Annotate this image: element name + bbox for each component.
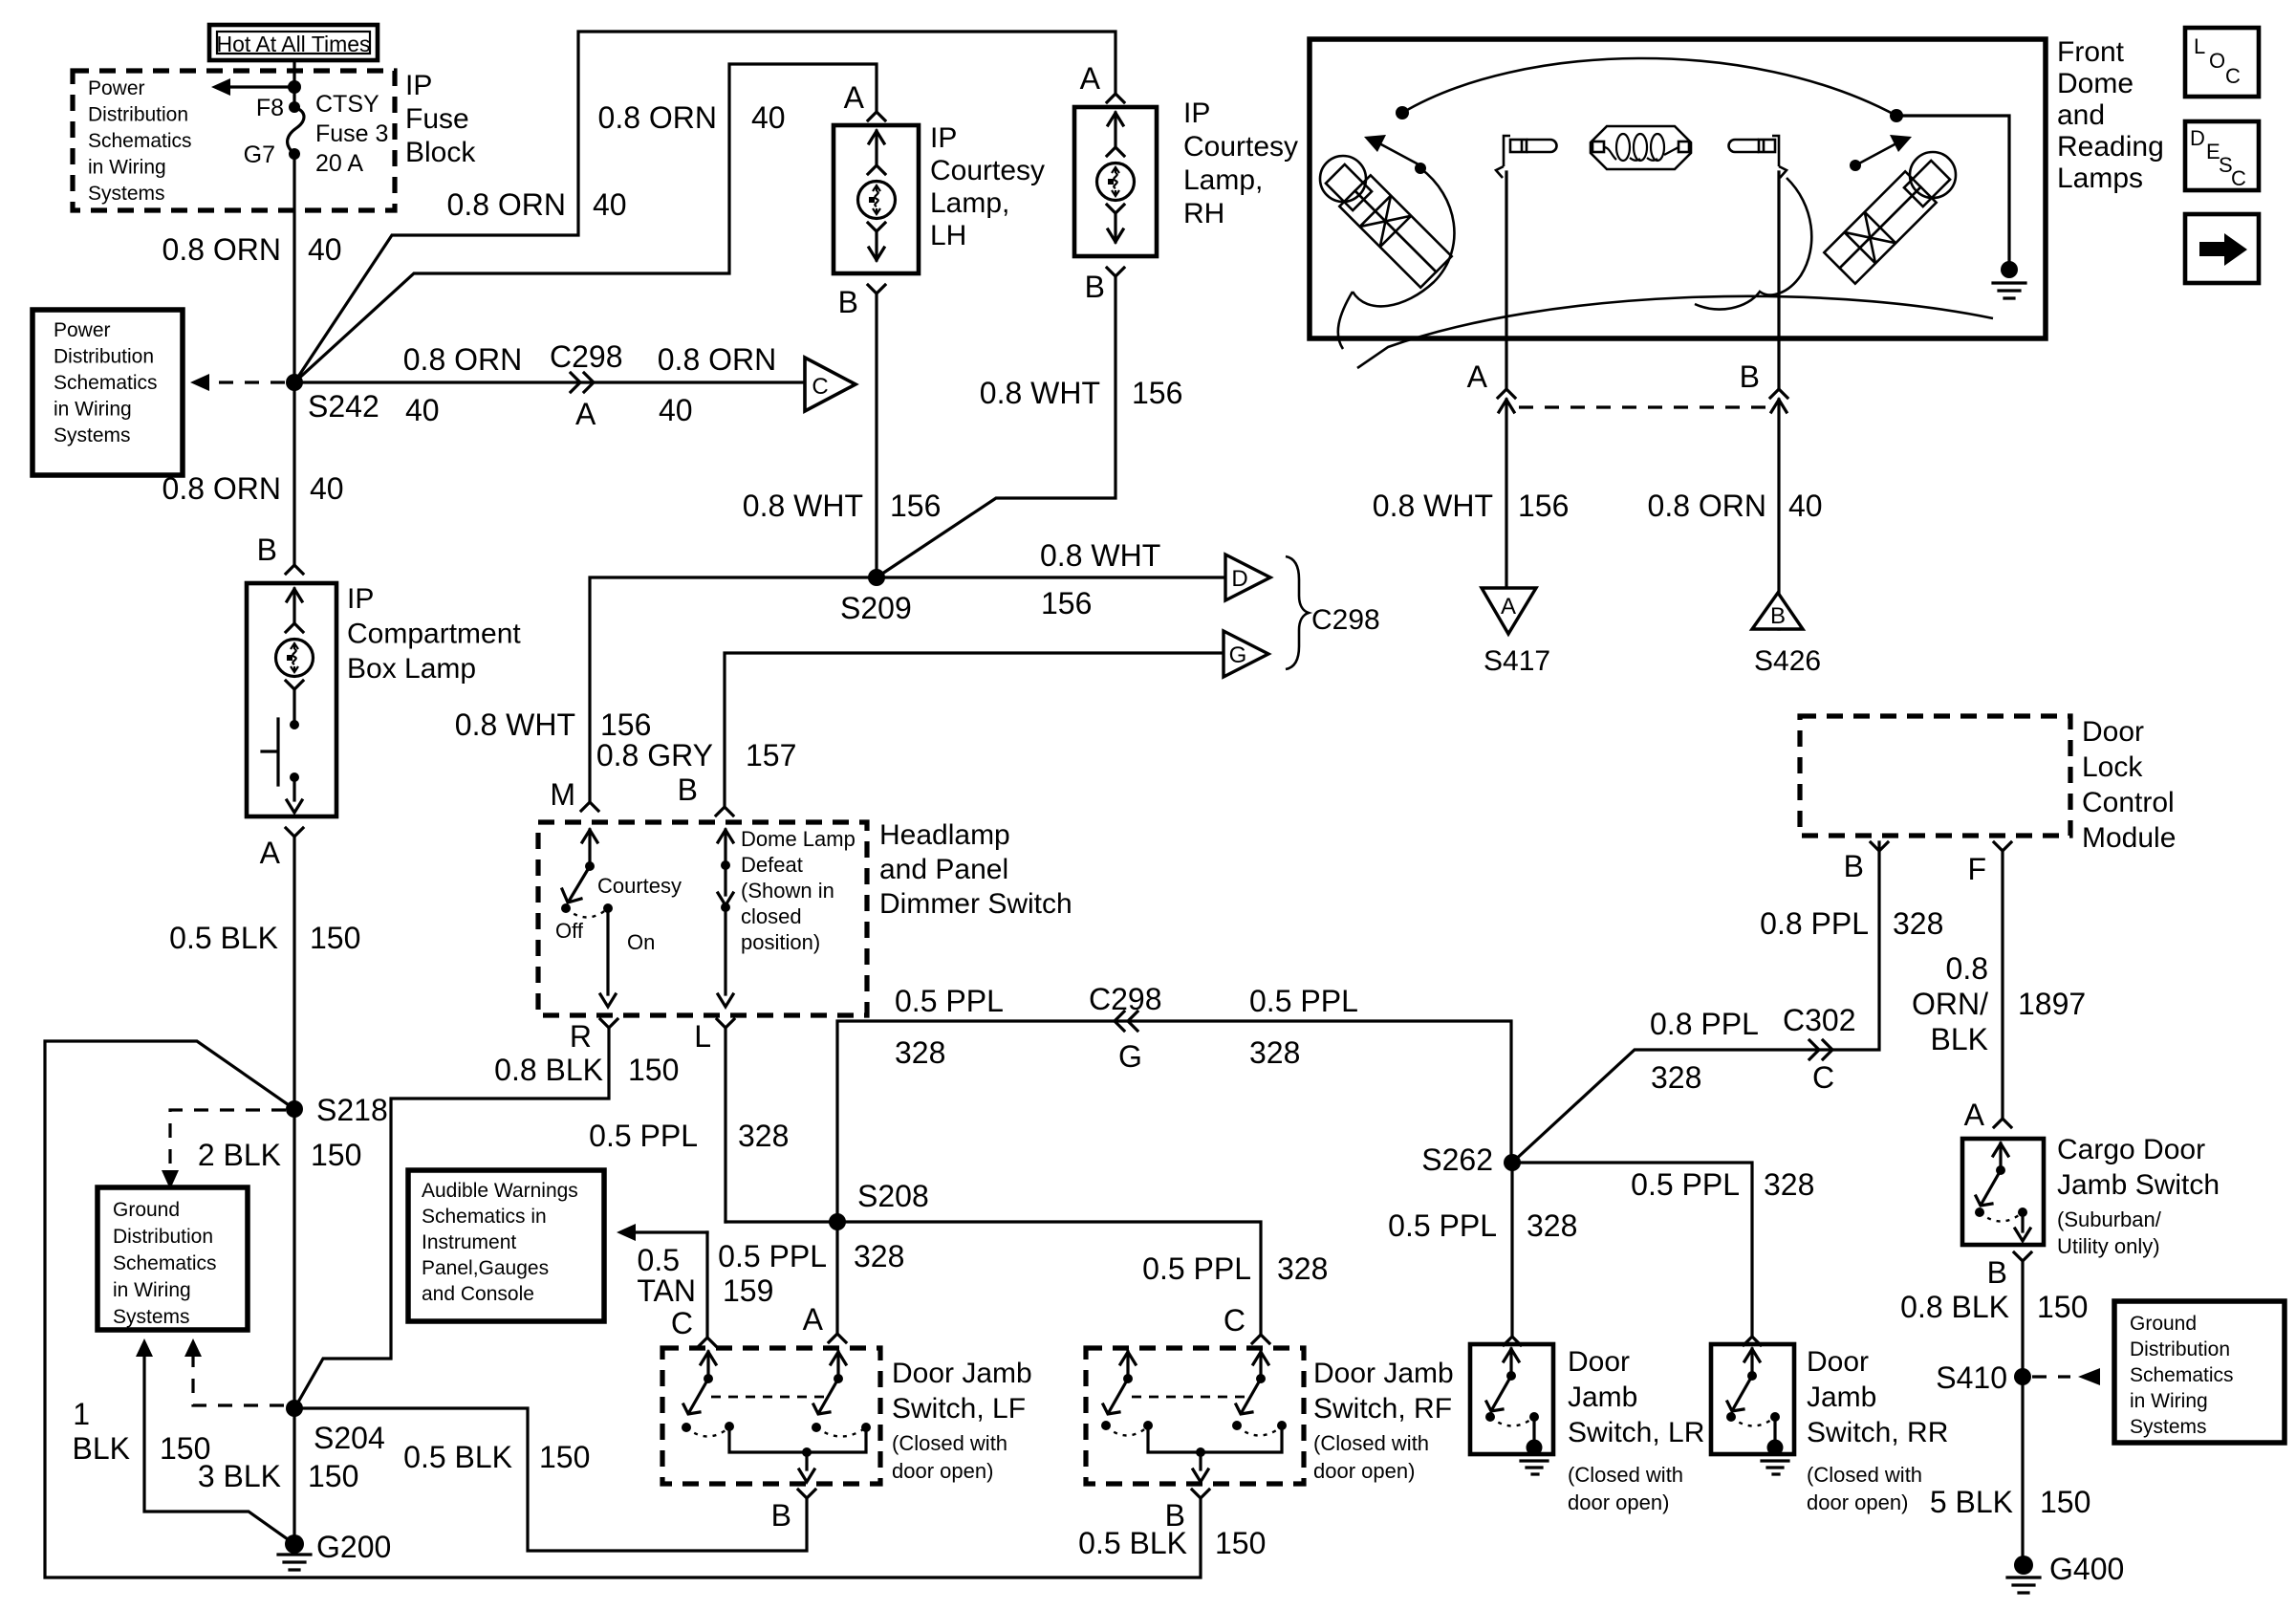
svg-text:Lamp,: Lamp, bbox=[1183, 164, 1263, 196]
svg-text:Jamb: Jamb bbox=[1568, 1382, 1637, 1413]
svg-text:B: B bbox=[1085, 270, 1105, 304]
svg-text:328: 328 bbox=[1277, 1251, 1328, 1286]
label 0.8 GRY 157 (B wire) bbox=[596, 738, 797, 772]
svg-text:and Console: and Console bbox=[422, 1283, 534, 1305]
svg-text:A: A bbox=[575, 397, 596, 431]
svg-text:S208: S208 bbox=[857, 1179, 929, 1213]
Ground Distribution Schematics box (right) bbox=[2114, 1301, 2285, 1443]
wire: fuse G7 down to S242 bbox=[292, 154, 295, 382]
dashed wire S242 to Power Distribution box with arrow bbox=[190, 374, 285, 391]
node S208 bbox=[829, 1179, 929, 1230]
wire 0.5 TAN to audible warnings bbox=[617, 1224, 707, 1338]
splice triangle S417 bbox=[1482, 588, 1550, 677]
svg-text:0.8 ORN: 0.8 ORN bbox=[403, 342, 522, 377]
wire compartment lamp A to S218/S204 bbox=[292, 837, 295, 1408]
svg-text:156: 156 bbox=[600, 707, 651, 742]
svg-text:Utility only): Utility only) bbox=[2057, 1234, 2160, 1258]
pin B of LH lamp bbox=[838, 285, 885, 319]
wire L pin down to S208 bbox=[724, 1028, 726, 1222]
label 0.5 BLK 150 (lamp ground) bbox=[169, 921, 360, 955]
wire S262 to C302 to Door Lock Module B bbox=[1512, 842, 1879, 1163]
svg-text:0.8: 0.8 bbox=[1946, 951, 1988, 986]
svg-text:Reading: Reading bbox=[2057, 131, 2164, 163]
Door Jamb Switch LF label bbox=[892, 1358, 1032, 1483]
RF internal dashed link bbox=[1132, 1396, 1245, 1399]
pin B of RF switch bbox=[1165, 1490, 1209, 1533]
node S218 bbox=[286, 1093, 388, 1127]
wire S242 down to compartment lamp B bbox=[292, 382, 295, 565]
Power Distribution Schematics reference text (fuse block) bbox=[88, 77, 192, 205]
switch position labels bbox=[555, 874, 682, 954]
svg-text:G400: G400 bbox=[2049, 1552, 2124, 1586]
svg-text:328: 328 bbox=[738, 1119, 789, 1153]
svg-text:in Wiring: in Wiring bbox=[2130, 1390, 2208, 1412]
svg-text:Systems: Systems bbox=[2130, 1416, 2207, 1438]
label 0.5 PPL 328 (L wire) bbox=[589, 1119, 789, 1153]
svg-text:ORN/: ORN/ bbox=[1912, 987, 1988, 1021]
svg-text:S218: S218 bbox=[316, 1093, 388, 1127]
svg-text:0.5 BLK: 0.5 BLK bbox=[169, 921, 278, 955]
svg-text:Dome Lamp: Dome Lamp bbox=[741, 827, 856, 851]
svg-text:Door: Door bbox=[1807, 1346, 1869, 1378]
lens bottom arc bbox=[1357, 296, 1993, 368]
label 0.5 PPL 328 (left of C298) bbox=[895, 984, 1004, 1070]
svg-text:B: B bbox=[771, 1498, 791, 1533]
svg-text:150: 150 bbox=[628, 1053, 679, 1087]
svg-text:40: 40 bbox=[308, 232, 342, 267]
dashed wire ground box to S204 bbox=[184, 1338, 285, 1405]
svg-text:0.5 PPL: 0.5 PPL bbox=[1388, 1208, 1497, 1243]
LOC legend box bbox=[2185, 28, 2259, 97]
svg-text:Schematics: Schematics bbox=[54, 372, 158, 394]
svg-text:B: B bbox=[678, 772, 698, 807]
svg-text:Defeat: Defeat bbox=[741, 853, 803, 877]
node S209 bbox=[840, 569, 912, 625]
pin A of LF switch bbox=[803, 1302, 846, 1342]
svg-text:A: A bbox=[1964, 1098, 1985, 1132]
label 1 BLK 150 bbox=[73, 1397, 211, 1466]
svg-text:Control: Control bbox=[2082, 787, 2175, 818]
wire cargo B to G400 bbox=[2021, 1261, 2024, 1565]
svg-text:Ground: Ground bbox=[2130, 1313, 2197, 1335]
svg-text:C298: C298 bbox=[550, 339, 623, 374]
svg-text:S417: S417 bbox=[1484, 645, 1550, 677]
svg-text:150: 150 bbox=[310, 921, 360, 955]
pin B of cargo switch bbox=[1987, 1252, 2031, 1290]
svg-text:Switch, LR: Switch, LR bbox=[1568, 1417, 1704, 1448]
svg-text:150: 150 bbox=[311, 1138, 361, 1172]
label 0.8 WHT 156 (dome A) bbox=[1373, 489, 1570, 523]
svg-text:Schematics: Schematics bbox=[2130, 1364, 2234, 1386]
svg-text:20 A: 20 A bbox=[315, 150, 363, 177]
svg-text:LH: LH bbox=[930, 220, 966, 251]
connector C298 (inline >>) bbox=[550, 339, 623, 431]
pin of LR switch bbox=[1504, 1337, 1521, 1345]
svg-text:A: A bbox=[1467, 359, 1488, 394]
svg-text:Panel,Gauges: Panel,Gauges bbox=[422, 1257, 549, 1279]
svg-text:L: L bbox=[2194, 34, 2205, 58]
svg-text:C302: C302 bbox=[1783, 1003, 1856, 1037]
svg-text:B: B bbox=[838, 285, 858, 319]
node S204 bbox=[286, 1400, 385, 1455]
label 0.8 WHT 156 (S209-D) bbox=[1040, 538, 1160, 620]
off-page triangle D bbox=[1225, 555, 1270, 600]
svg-text:Dimmer Switch: Dimmer Switch bbox=[879, 888, 1072, 920]
svg-text:in Wiring: in Wiring bbox=[88, 157, 166, 179]
left bulb harness wire bbox=[1338, 163, 1455, 349]
Front Dome and Reading Lamps label bbox=[2057, 36, 2164, 194]
node at fuse feed bbox=[288, 80, 301, 94]
svg-text:40: 40 bbox=[310, 471, 344, 506]
connector C298 (inline <<) bbox=[1089, 982, 1162, 1074]
svg-text:IP: IP bbox=[1183, 98, 1210, 129]
label 0.5 TAN 159 bbox=[637, 1243, 773, 1308]
svg-text:1897: 1897 bbox=[2018, 987, 2086, 1021]
svg-text:Door: Door bbox=[1568, 1346, 1630, 1378]
splice triangle S426 bbox=[1752, 593, 1821, 677]
svg-text:40: 40 bbox=[751, 100, 786, 135]
label 0.5 PPL 328 (RF C wire) bbox=[1142, 1251, 1328, 1286]
label 0.8 BLK 150 (cargo B) bbox=[1900, 1290, 2088, 1324]
Power Distribution Schematics box (left) bbox=[32, 310, 183, 475]
svg-text:0.5 PPL: 0.5 PPL bbox=[1631, 1167, 1740, 1202]
wire S208 horizontal to RF door jamb C bbox=[726, 1222, 1261, 1335]
label 0.5 PPL 328 (LR wire) bbox=[1388, 1208, 1577, 1243]
svg-text:Off: Off bbox=[555, 919, 584, 943]
LF switch left pole bbox=[682, 1352, 729, 1437]
dashed wire S410 to ground distribution box bbox=[2032, 1368, 2100, 1385]
svg-text:Block: Block bbox=[405, 137, 476, 168]
svg-text:Systems: Systems bbox=[113, 1306, 190, 1328]
svg-text:5 BLK: 5 BLK bbox=[1930, 1485, 2013, 1519]
label 0.8 ORN 40 (S242-C298) bbox=[403, 342, 522, 427]
svg-text:Switch, RF: Switch, RF bbox=[1313, 1393, 1452, 1425]
wire S262 right to RR switch bbox=[1512, 1163, 1752, 1337]
left reading bulb bbox=[1320, 156, 1452, 288]
svg-text:Headlamp: Headlamp bbox=[879, 819, 1010, 851]
svg-text:door open): door open) bbox=[892, 1459, 993, 1483]
Door Jamb Switch RF box bbox=[1086, 1348, 1304, 1484]
svg-text:IP: IP bbox=[347, 583, 374, 615]
svg-text:G200: G200 bbox=[316, 1530, 391, 1564]
svg-text:0.5 BLK: 0.5 BLK bbox=[1078, 1526, 1187, 1560]
label 0.5 BLK 150 (S204-LF) bbox=[403, 1440, 590, 1474]
Audible Warnings reference box bbox=[408, 1170, 604, 1321]
label 0.8 WHT 156 (LH B wire) bbox=[743, 489, 942, 523]
pin B of door lock module bbox=[1844, 842, 1888, 883]
svg-text:0.5 PPL: 0.5 PPL bbox=[1249, 984, 1358, 1018]
pin R of dimmer switch bbox=[570, 1019, 617, 1054]
svg-text:156: 156 bbox=[890, 489, 941, 523]
IP Courtesy Lamp RH bbox=[1074, 98, 1298, 256]
wire S204 to LF door jamb B bbox=[294, 1408, 807, 1551]
svg-text:Compartment: Compartment bbox=[347, 619, 521, 650]
svg-text:D: D bbox=[2190, 126, 2205, 150]
svg-text:(Shown in: (Shown in bbox=[741, 879, 834, 903]
label 0.8 ORN 40 (lower run) bbox=[447, 187, 627, 222]
svg-text:(Closed with: (Closed with bbox=[1807, 1463, 1922, 1487]
LF internal dashed link bbox=[711, 1396, 824, 1399]
label 0.5 PPL 328 (RR wire) bbox=[1631, 1167, 1814, 1202]
svg-text:C: C bbox=[812, 374, 828, 400]
svg-text:0.8 WHT: 0.8 WHT bbox=[980, 376, 1100, 410]
pin A of RH lamp bbox=[1080, 61, 1124, 102]
Cargo Door Jamb Switch bbox=[1962, 1139, 2044, 1245]
label 0.8 PPL 328 (S262-C302) bbox=[1650, 1007, 1759, 1095]
svg-text:door open): door open) bbox=[1313, 1459, 1415, 1483]
svg-text:0.8 PPL: 0.8 PPL bbox=[1760, 906, 1869, 941]
svg-text:BLK: BLK bbox=[1931, 1022, 1988, 1056]
Door Jamb Switch LR bbox=[1470, 1344, 1553, 1474]
wire dome B to S426 bbox=[1777, 400, 1780, 629]
svg-text:157: 157 bbox=[746, 738, 796, 772]
svg-text:Jamb: Jamb bbox=[1807, 1382, 1876, 1413]
svg-text:position): position) bbox=[741, 930, 820, 954]
svg-text:(Closed with: (Closed with bbox=[1568, 1463, 1683, 1487]
svg-text:Schematics: Schematics bbox=[88, 130, 192, 152]
svg-text:0.8 WHT: 0.8 WHT bbox=[1373, 489, 1493, 523]
svg-text:156: 156 bbox=[1132, 376, 1182, 410]
pin L of dimmer switch bbox=[694, 1019, 734, 1054]
pin A of dome lamp assembly bbox=[1467, 359, 1515, 412]
pin B of compartment lamp bbox=[257, 533, 303, 574]
svg-text:40: 40 bbox=[405, 393, 440, 427]
label 0.8 BLK 150 (R wire) bbox=[494, 1053, 679, 1087]
label 0.8 ORN 40 (fuse output) bbox=[162, 232, 342, 267]
svg-text:0.8 WHT: 0.8 WHT bbox=[455, 707, 575, 742]
wire R pin to S204 (0.8 BLK) bbox=[296, 1028, 609, 1405]
svg-text:and: and bbox=[2057, 99, 2105, 131]
wire S208 up through C298 to S262 bbox=[837, 1021, 1511, 1222]
svg-text:Lock: Lock bbox=[2082, 751, 2143, 783]
svg-text:S262: S262 bbox=[1421, 1142, 1493, 1177]
svg-text:F8: F8 bbox=[256, 95, 284, 121]
svg-text:Dome: Dome bbox=[2057, 68, 2134, 99]
label 0.8 PPL 328 (module B wire) bbox=[1760, 906, 1943, 941]
svg-text:0.8 GRY: 0.8 GRY bbox=[596, 738, 713, 772]
Headlamp and Panel Dimmer Switch label bbox=[879, 819, 1072, 920]
svg-text:0.8 WHT: 0.8 WHT bbox=[1040, 538, 1160, 573]
ground G400 bbox=[2007, 1552, 2124, 1593]
svg-text:S204: S204 bbox=[314, 1421, 385, 1455]
svg-text:A: A bbox=[844, 80, 865, 115]
node S262 bbox=[1421, 1142, 1521, 1177]
Door Jamb Switch RF label bbox=[1313, 1358, 1454, 1483]
left bulb arrow bbox=[1364, 135, 1419, 164]
Front Dome and Reading Lamps box bbox=[1310, 39, 2046, 338]
brace and C298 label for D/G bbox=[1286, 556, 1380, 669]
wire S208 down to LF door jamb A bbox=[835, 1222, 838, 1334]
DESC legend box bbox=[2185, 121, 2259, 190]
svg-text:S410: S410 bbox=[1936, 1360, 2007, 1395]
svg-text:Front: Front bbox=[2057, 36, 2125, 68]
LF output bus bbox=[725, 1422, 871, 1482]
svg-text:328: 328 bbox=[854, 1239, 904, 1273]
svg-text:0.5: 0.5 bbox=[638, 1243, 680, 1277]
svg-text:(Closed with: (Closed with bbox=[1313, 1431, 1429, 1455]
svg-text:150: 150 bbox=[308, 1459, 358, 1493]
Hot At All Times box bbox=[209, 25, 378, 60]
svg-text:G7: G7 bbox=[244, 141, 275, 168]
pin of RR switch bbox=[1744, 1337, 1761, 1345]
pin M of dimmer switch bbox=[550, 777, 598, 812]
label 0.8 ORN/BLK 1897 bbox=[1912, 951, 2086, 1056]
svg-text:328: 328 bbox=[1764, 1167, 1814, 1202]
wire RH lamp B to S209 bbox=[877, 276, 1116, 577]
label 0.8 ORN 40 (C298-C) bbox=[658, 342, 776, 427]
fuse CTSY Fuse 3 20A bbox=[244, 91, 389, 177]
svg-text:Courtesy: Courtesy bbox=[930, 155, 1045, 186]
svg-text:Door Jamb: Door Jamb bbox=[892, 1358, 1032, 1389]
svg-text:Fuse: Fuse bbox=[405, 103, 469, 135]
pin B of LF switch bbox=[771, 1490, 815, 1533]
svg-text:150: 150 bbox=[1215, 1526, 1266, 1560]
dome lamp defeat note bbox=[741, 827, 856, 954]
svg-text:B: B bbox=[1844, 849, 1864, 883]
ground G200 bbox=[278, 1408, 391, 1570]
wire dome-defeat B pin to triangle G bbox=[725, 653, 1222, 807]
Cargo Door Jamb Switch label bbox=[2057, 1134, 2220, 1258]
IP Fuse Block label bbox=[405, 70, 476, 168]
svg-text:Door Jamb: Door Jamb bbox=[1313, 1358, 1454, 1389]
ground wire in dome box bbox=[1890, 109, 2025, 298]
wire S209 to M pin of dimmer switch bbox=[590, 577, 877, 802]
dashed link between dome A and B pins bbox=[1519, 405, 1766, 408]
svg-text:Box Lamp: Box Lamp bbox=[347, 653, 476, 685]
courtesy switch (M-R) inside dimmer switch bbox=[561, 830, 616, 1007]
svg-text:C: C bbox=[1812, 1060, 1834, 1095]
node S242 bbox=[286, 374, 379, 424]
svg-text:(Closed with: (Closed with bbox=[892, 1431, 1007, 1455]
svg-text:Lamps: Lamps bbox=[2057, 163, 2143, 194]
svg-text:0.8 ORN: 0.8 ORN bbox=[162, 232, 281, 267]
svg-text:40: 40 bbox=[593, 187, 627, 222]
pin B of dimmer switch bbox=[678, 772, 733, 816]
off-page triangle G bbox=[1224, 631, 1268, 677]
svg-text:On: On bbox=[627, 930, 655, 954]
svg-text:B: B bbox=[1740, 359, 1760, 394]
label 0.5 PPL 328 (below S208) bbox=[718, 1239, 904, 1273]
svg-text:150: 150 bbox=[2037, 1290, 2088, 1324]
svg-text:Distribution: Distribution bbox=[88, 104, 188, 126]
svg-text:Schematics: Schematics bbox=[113, 1252, 217, 1274]
svg-text:0.8 ORN: 0.8 ORN bbox=[598, 100, 717, 135]
svg-text:Distribution: Distribution bbox=[54, 346, 154, 368]
wire dome A to S417 bbox=[1505, 400, 1507, 588]
right bulb harness wire bbox=[1695, 178, 1811, 310]
lens top arc bbox=[1396, 58, 1896, 120]
svg-text:150: 150 bbox=[539, 1440, 590, 1474]
svg-text:closed: closed bbox=[741, 904, 802, 928]
svg-text:C: C bbox=[2225, 64, 2241, 88]
svg-text:RH: RH bbox=[1183, 198, 1224, 229]
svg-text:328: 328 bbox=[895, 1035, 945, 1070]
wire: Hot At All Times to fuse bbox=[292, 60, 295, 107]
svg-text:in Wiring: in Wiring bbox=[113, 1279, 191, 1301]
Door Jamb Switch LR label bbox=[1568, 1346, 1704, 1514]
label 0.5 PPL 328 (right of C298) bbox=[1249, 984, 1358, 1070]
pin A of cargo switch bbox=[1964, 1098, 2011, 1132]
svg-text:Switch, RR: Switch, RR bbox=[1807, 1417, 1948, 1448]
right reading bulb bbox=[1824, 152, 1956, 284]
pin A of LH lamp bbox=[844, 80, 885, 120]
Door Jamb Switch LF box bbox=[662, 1348, 880, 1484]
svg-text:328: 328 bbox=[1249, 1035, 1300, 1070]
svg-text:door open): door open) bbox=[1568, 1490, 1669, 1514]
svg-text:0.5 PPL: 0.5 PPL bbox=[895, 984, 1004, 1018]
left lamp socket bbox=[1496, 136, 1557, 178]
label 0.5 BLK 150 (RF B wire) bbox=[1078, 1526, 1266, 1560]
wire S209 to triangle D bbox=[877, 576, 1224, 578]
svg-text:0.5 PPL: 0.5 PPL bbox=[1142, 1251, 1251, 1286]
svg-text:0.8 BLK: 0.8 BLK bbox=[1900, 1290, 2009, 1324]
right lamp socket bbox=[1729, 136, 1787, 178]
pin C of RF switch bbox=[1224, 1303, 1269, 1343]
svg-text:A: A bbox=[1080, 61, 1101, 96]
svg-text:S209: S209 bbox=[840, 591, 912, 625]
svg-text:Systems: Systems bbox=[54, 424, 131, 446]
svg-text:Lamp,: Lamp, bbox=[930, 187, 1009, 219]
svg-text:and Panel: and Panel bbox=[879, 854, 1008, 885]
svg-text:3 BLK: 3 BLK bbox=[198, 1459, 281, 1493]
svg-text:Systems: Systems bbox=[88, 183, 165, 205]
svg-text:2 BLK: 2 BLK bbox=[198, 1138, 281, 1172]
svg-text:F: F bbox=[1967, 852, 1986, 886]
svg-text:Module: Module bbox=[2082, 822, 2176, 854]
svg-text:Switch, LF: Switch, LF bbox=[892, 1393, 1026, 1425]
svg-text:Schematics in: Schematics in bbox=[422, 1206, 547, 1228]
svg-text:D: D bbox=[1231, 566, 1247, 592]
svg-text:R: R bbox=[570, 1019, 592, 1054]
off-page arrow left from fuse feed bbox=[211, 78, 294, 96]
svg-text:150: 150 bbox=[2040, 1485, 2090, 1519]
svg-text:0.8 ORN: 0.8 ORN bbox=[447, 187, 566, 222]
svg-text:O: O bbox=[2209, 49, 2225, 73]
svg-text:L: L bbox=[694, 1019, 711, 1054]
svg-text:Audible Warnings: Audible Warnings bbox=[422, 1180, 578, 1202]
arrow legend box bbox=[2185, 214, 2259, 283]
svg-text:328: 328 bbox=[1527, 1208, 1577, 1243]
dome lamp defeat contact (B-L) bbox=[718, 830, 733, 1007]
Headlamp and Panel Dimmer Switch dashed box bbox=[538, 822, 867, 1015]
Door Jamb Switch RR bbox=[1711, 1344, 1794, 1474]
wire S242 to C298 connector bbox=[294, 381, 803, 383]
svg-text:B: B bbox=[257, 533, 277, 567]
svg-text:Jamb Switch: Jamb Switch bbox=[2057, 1169, 2220, 1201]
svg-text:0.8 ORN: 0.8 ORN bbox=[1648, 489, 1766, 523]
wire S242 to IP Courtesy Lamp RH pin A bbox=[294, 32, 1116, 382]
svg-text:0.5 PPL: 0.5 PPL bbox=[589, 1119, 698, 1153]
svg-text:0.8 PPL: 0.8 PPL bbox=[1650, 1007, 1759, 1041]
IP Courtesy Lamp LH bbox=[834, 122, 1045, 273]
svg-text:C298: C298 bbox=[1089, 982, 1162, 1016]
svg-text:C: C bbox=[2231, 166, 2246, 190]
off-page triangle C bbox=[805, 358, 856, 411]
Door Lock Control Module dashed box bbox=[1800, 716, 2176, 854]
svg-text:Door: Door bbox=[2082, 716, 2144, 748]
wire LH lamp B to S209 bbox=[875, 294, 877, 577]
svg-text:Power: Power bbox=[54, 319, 111, 341]
svg-text:0.5 PPL: 0.5 PPL bbox=[718, 1239, 827, 1273]
wire dome lamp B drop bbox=[1777, 172, 1780, 389]
svg-text:C: C bbox=[1224, 1303, 1245, 1338]
svg-text:1: 1 bbox=[73, 1397, 90, 1431]
label 0.8 ORN 40 (dome B) bbox=[1648, 489, 1823, 523]
pin A of compartment lamp bbox=[260, 828, 303, 870]
svg-text:Cargo Door: Cargo Door bbox=[2057, 1134, 2205, 1165]
svg-text:Courtesy: Courtesy bbox=[597, 874, 682, 898]
svg-text:0.8 ORN: 0.8 ORN bbox=[162, 471, 281, 506]
